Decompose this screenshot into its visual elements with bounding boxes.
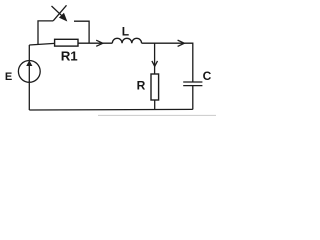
svg-text:C: C [203,69,212,83]
svg-text:R: R [137,79,146,93]
svg-text:L: L [122,25,129,39]
svg-text:E: E [5,71,12,83]
svg-text:R1: R1 [61,49,79,64]
